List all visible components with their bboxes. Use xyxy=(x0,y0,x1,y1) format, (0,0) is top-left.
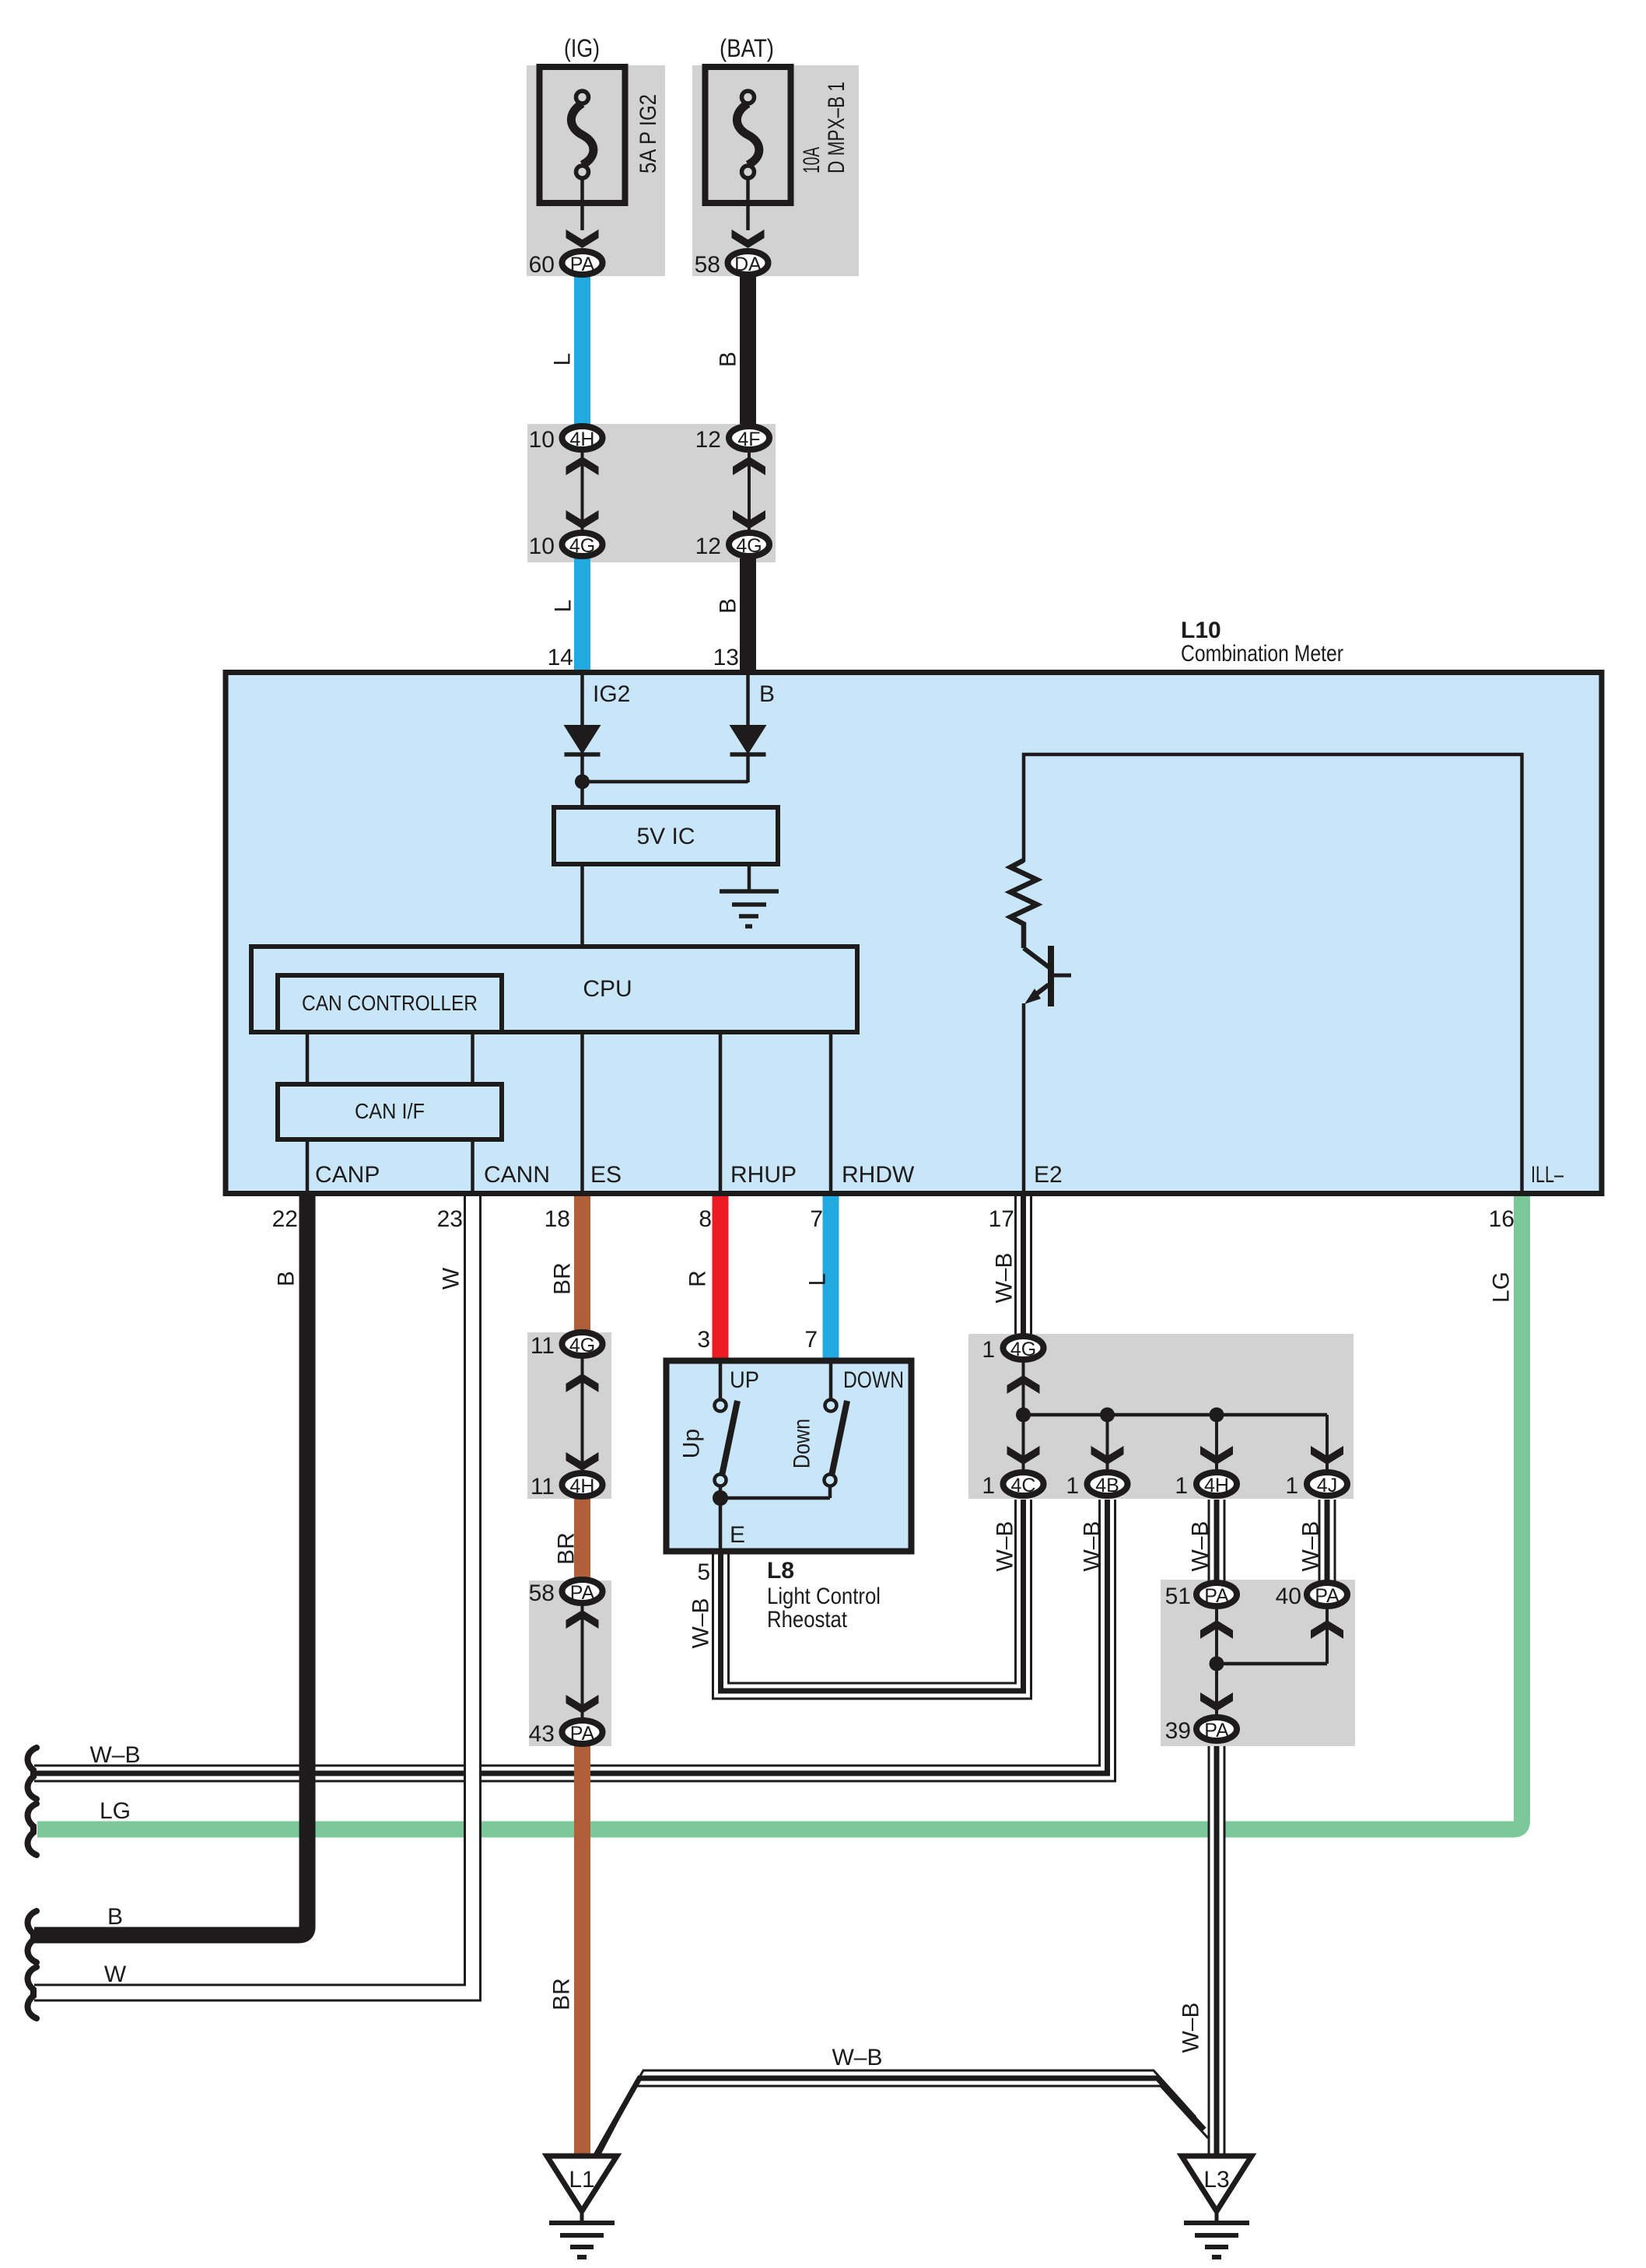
svg-text:E2: E2 xyxy=(1034,1162,1063,1188)
svg-text:W–B: W–B xyxy=(688,1598,714,1648)
svg-text:LG: LG xyxy=(100,1798,131,1824)
svg-text:7: 7 xyxy=(810,1206,823,1232)
svg-text:58: 58 xyxy=(529,1580,555,1606)
svg-text:10A: 10A xyxy=(799,147,825,173)
svg-text:B: B xyxy=(107,1904,123,1930)
svg-text:43: 43 xyxy=(529,1721,555,1747)
svg-text:39: 39 xyxy=(1165,1718,1191,1744)
svg-text:22: 22 xyxy=(272,1206,298,1232)
svg-text:16: 16 xyxy=(1489,1206,1515,1232)
svg-text:4G: 4G xyxy=(736,535,762,557)
svg-text:W–B: W–B xyxy=(1188,1521,1213,1571)
svg-text:PA: PA xyxy=(570,1723,595,1745)
svg-text:4J: 4J xyxy=(1317,1475,1337,1496)
svg-text:BR: BR xyxy=(550,1262,576,1295)
svg-text:CAN I/F: CAN I/F xyxy=(355,1099,425,1123)
svg-text:5: 5 xyxy=(697,1559,710,1585)
svg-text:CPU: CPU xyxy=(583,976,632,1002)
svg-text:1: 1 xyxy=(982,1337,995,1363)
svg-text:B: B xyxy=(274,1271,299,1286)
svg-text:60: 60 xyxy=(529,252,555,278)
svg-text:4G: 4G xyxy=(569,1335,595,1356)
svg-text:ES: ES xyxy=(590,1162,622,1188)
svg-text:L: L xyxy=(550,353,576,366)
svg-text:4H: 4H xyxy=(570,429,595,450)
svg-text:W–B: W–B xyxy=(993,1521,1018,1571)
svg-text:W–B: W–B xyxy=(832,2045,882,2070)
svg-text:PA: PA xyxy=(1315,1585,1340,1607)
svg-text:L: L xyxy=(551,600,576,613)
svg-text:DOWN: DOWN xyxy=(843,1367,904,1393)
svg-text:4G: 4G xyxy=(1010,1339,1036,1360)
svg-text:UP: UP xyxy=(730,1367,759,1393)
svg-text:L8: L8 xyxy=(767,1558,794,1584)
svg-text:Down: Down xyxy=(790,1419,815,1468)
svg-text:5V IC: 5V IC xyxy=(636,824,695,849)
svg-text:12: 12 xyxy=(695,427,721,453)
svg-text:W–B: W–B xyxy=(1298,1521,1324,1571)
svg-text:LG: LG xyxy=(1489,1272,1515,1303)
svg-text:BR: BR xyxy=(554,1532,580,1565)
svg-text:B: B xyxy=(716,598,741,614)
svg-text:(IG): (IG) xyxy=(564,34,600,62)
svg-text:11: 11 xyxy=(531,1333,555,1359)
svg-text:Light Control: Light Control xyxy=(767,1584,881,1609)
svg-text:PA: PA xyxy=(1204,1585,1229,1607)
svg-text:10: 10 xyxy=(529,534,555,559)
svg-text:PA: PA xyxy=(570,254,595,275)
svg-text:B: B xyxy=(759,681,775,707)
svg-text:18: 18 xyxy=(545,1206,570,1232)
svg-text:Up: Up xyxy=(679,1429,705,1458)
svg-text:W–B: W–B xyxy=(1080,1521,1105,1571)
svg-text:13: 13 xyxy=(713,645,739,670)
svg-text:1: 1 xyxy=(1175,1473,1188,1499)
svg-text:W–B: W–B xyxy=(89,1742,140,1768)
svg-text:1: 1 xyxy=(982,1473,995,1499)
svg-text:E: E xyxy=(730,1522,745,1548)
svg-text:PA: PA xyxy=(1204,1720,1229,1741)
svg-text:4C: 4C xyxy=(1011,1475,1036,1496)
svg-text:B: B xyxy=(716,352,741,367)
svg-text:17: 17 xyxy=(989,1206,1014,1232)
svg-text:PA: PA xyxy=(570,1582,595,1604)
svg-text:D MPX–B 1: D MPX–B 1 xyxy=(824,82,849,173)
svg-text:1: 1 xyxy=(1285,1473,1298,1499)
svg-text:23: 23 xyxy=(437,1206,463,1232)
svg-text:L3: L3 xyxy=(1203,2167,1229,2193)
svg-text:RHUP: RHUP xyxy=(730,1162,797,1188)
svg-text:W–B: W–B xyxy=(992,1252,1017,1303)
svg-text:4F: 4F xyxy=(737,429,760,450)
svg-text:IG2: IG2 xyxy=(593,681,630,707)
svg-text:W: W xyxy=(439,1267,464,1290)
svg-text:CAN CONTROLLER: CAN CONTROLLER xyxy=(302,991,478,1015)
svg-text:5A P IG2: 5A P IG2 xyxy=(636,94,661,173)
svg-text:11: 11 xyxy=(531,1474,555,1500)
svg-text:L10: L10 xyxy=(1181,618,1221,643)
svg-text:4H: 4H xyxy=(1204,1475,1229,1496)
svg-text:4G: 4G xyxy=(569,535,595,557)
svg-text:4H: 4H xyxy=(570,1475,595,1497)
svg-text:3: 3 xyxy=(697,1327,710,1353)
svg-text:40: 40 xyxy=(1276,1584,1301,1609)
svg-text:58: 58 xyxy=(695,252,720,278)
svg-text:W–B: W–B xyxy=(1178,2002,1204,2053)
svg-text:CANN: CANN xyxy=(484,1162,550,1188)
svg-text:12: 12 xyxy=(695,534,721,559)
svg-text:14: 14 xyxy=(548,645,573,670)
svg-text:Rheostat: Rheostat xyxy=(767,1607,848,1633)
svg-text:4B: 4B xyxy=(1095,1475,1119,1496)
svg-text:7: 7 xyxy=(804,1327,818,1353)
svg-text:10: 10 xyxy=(529,427,555,453)
svg-text:L: L xyxy=(805,1273,831,1286)
svg-text:Combination Meter: Combination Meter xyxy=(1181,641,1343,667)
svg-text:RHDW: RHDW xyxy=(842,1162,915,1188)
svg-text:R: R xyxy=(685,1270,711,1287)
svg-text:CANP: CANP xyxy=(315,1162,380,1188)
svg-text:DA: DA xyxy=(734,254,762,275)
svg-text:8: 8 xyxy=(699,1206,712,1232)
svg-text:51: 51 xyxy=(1165,1584,1191,1609)
svg-text:L1: L1 xyxy=(569,2167,594,2193)
svg-text:BR: BR xyxy=(549,1978,575,2011)
svg-text:1: 1 xyxy=(1066,1473,1079,1499)
svg-text:W: W xyxy=(104,1962,127,1987)
svg-text:(BAT): (BAT) xyxy=(720,34,774,62)
svg-text:ILL–: ILL– xyxy=(1531,1162,1564,1188)
